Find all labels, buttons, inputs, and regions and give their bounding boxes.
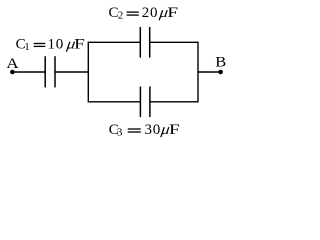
label C1 value <box>16 35 86 53</box>
svg-text:30: 30 <box>145 122 161 138</box>
svg-text:10: 10 <box>48 36 64 52</box>
label C2 value <box>109 4 179 22</box>
label C3 value <box>109 121 181 139</box>
svg-text:F: F <box>167 4 178 20</box>
svg-text:2: 2 <box>118 10 124 22</box>
wire right vertical <box>197 42 199 103</box>
svg-text:F: F <box>74 35 85 51</box>
wire left vertical <box>87 42 89 103</box>
wire C1 to box <box>55 71 88 73</box>
wire top edge right <box>150 41 198 43</box>
node A <box>6 56 19 74</box>
wire bottom edge right <box>150 101 198 103</box>
svg-text:B: B <box>215 54 226 70</box>
node B <box>215 54 226 74</box>
wire box to B <box>198 71 221 73</box>
wire top edge left <box>88 41 140 43</box>
svg-text:A: A <box>6 56 19 72</box>
capacitor C2 <box>140 27 149 58</box>
svg-text:F: F <box>169 121 180 137</box>
wire bottom edge left <box>88 101 140 103</box>
svg-text:20: 20 <box>142 5 158 21</box>
capacitor C3 <box>140 87 150 118</box>
wire A to C1 <box>12 71 45 73</box>
svg-text:3: 3 <box>117 127 123 139</box>
svg-text:1: 1 <box>24 41 30 53</box>
capacitor C1 <box>45 56 55 87</box>
